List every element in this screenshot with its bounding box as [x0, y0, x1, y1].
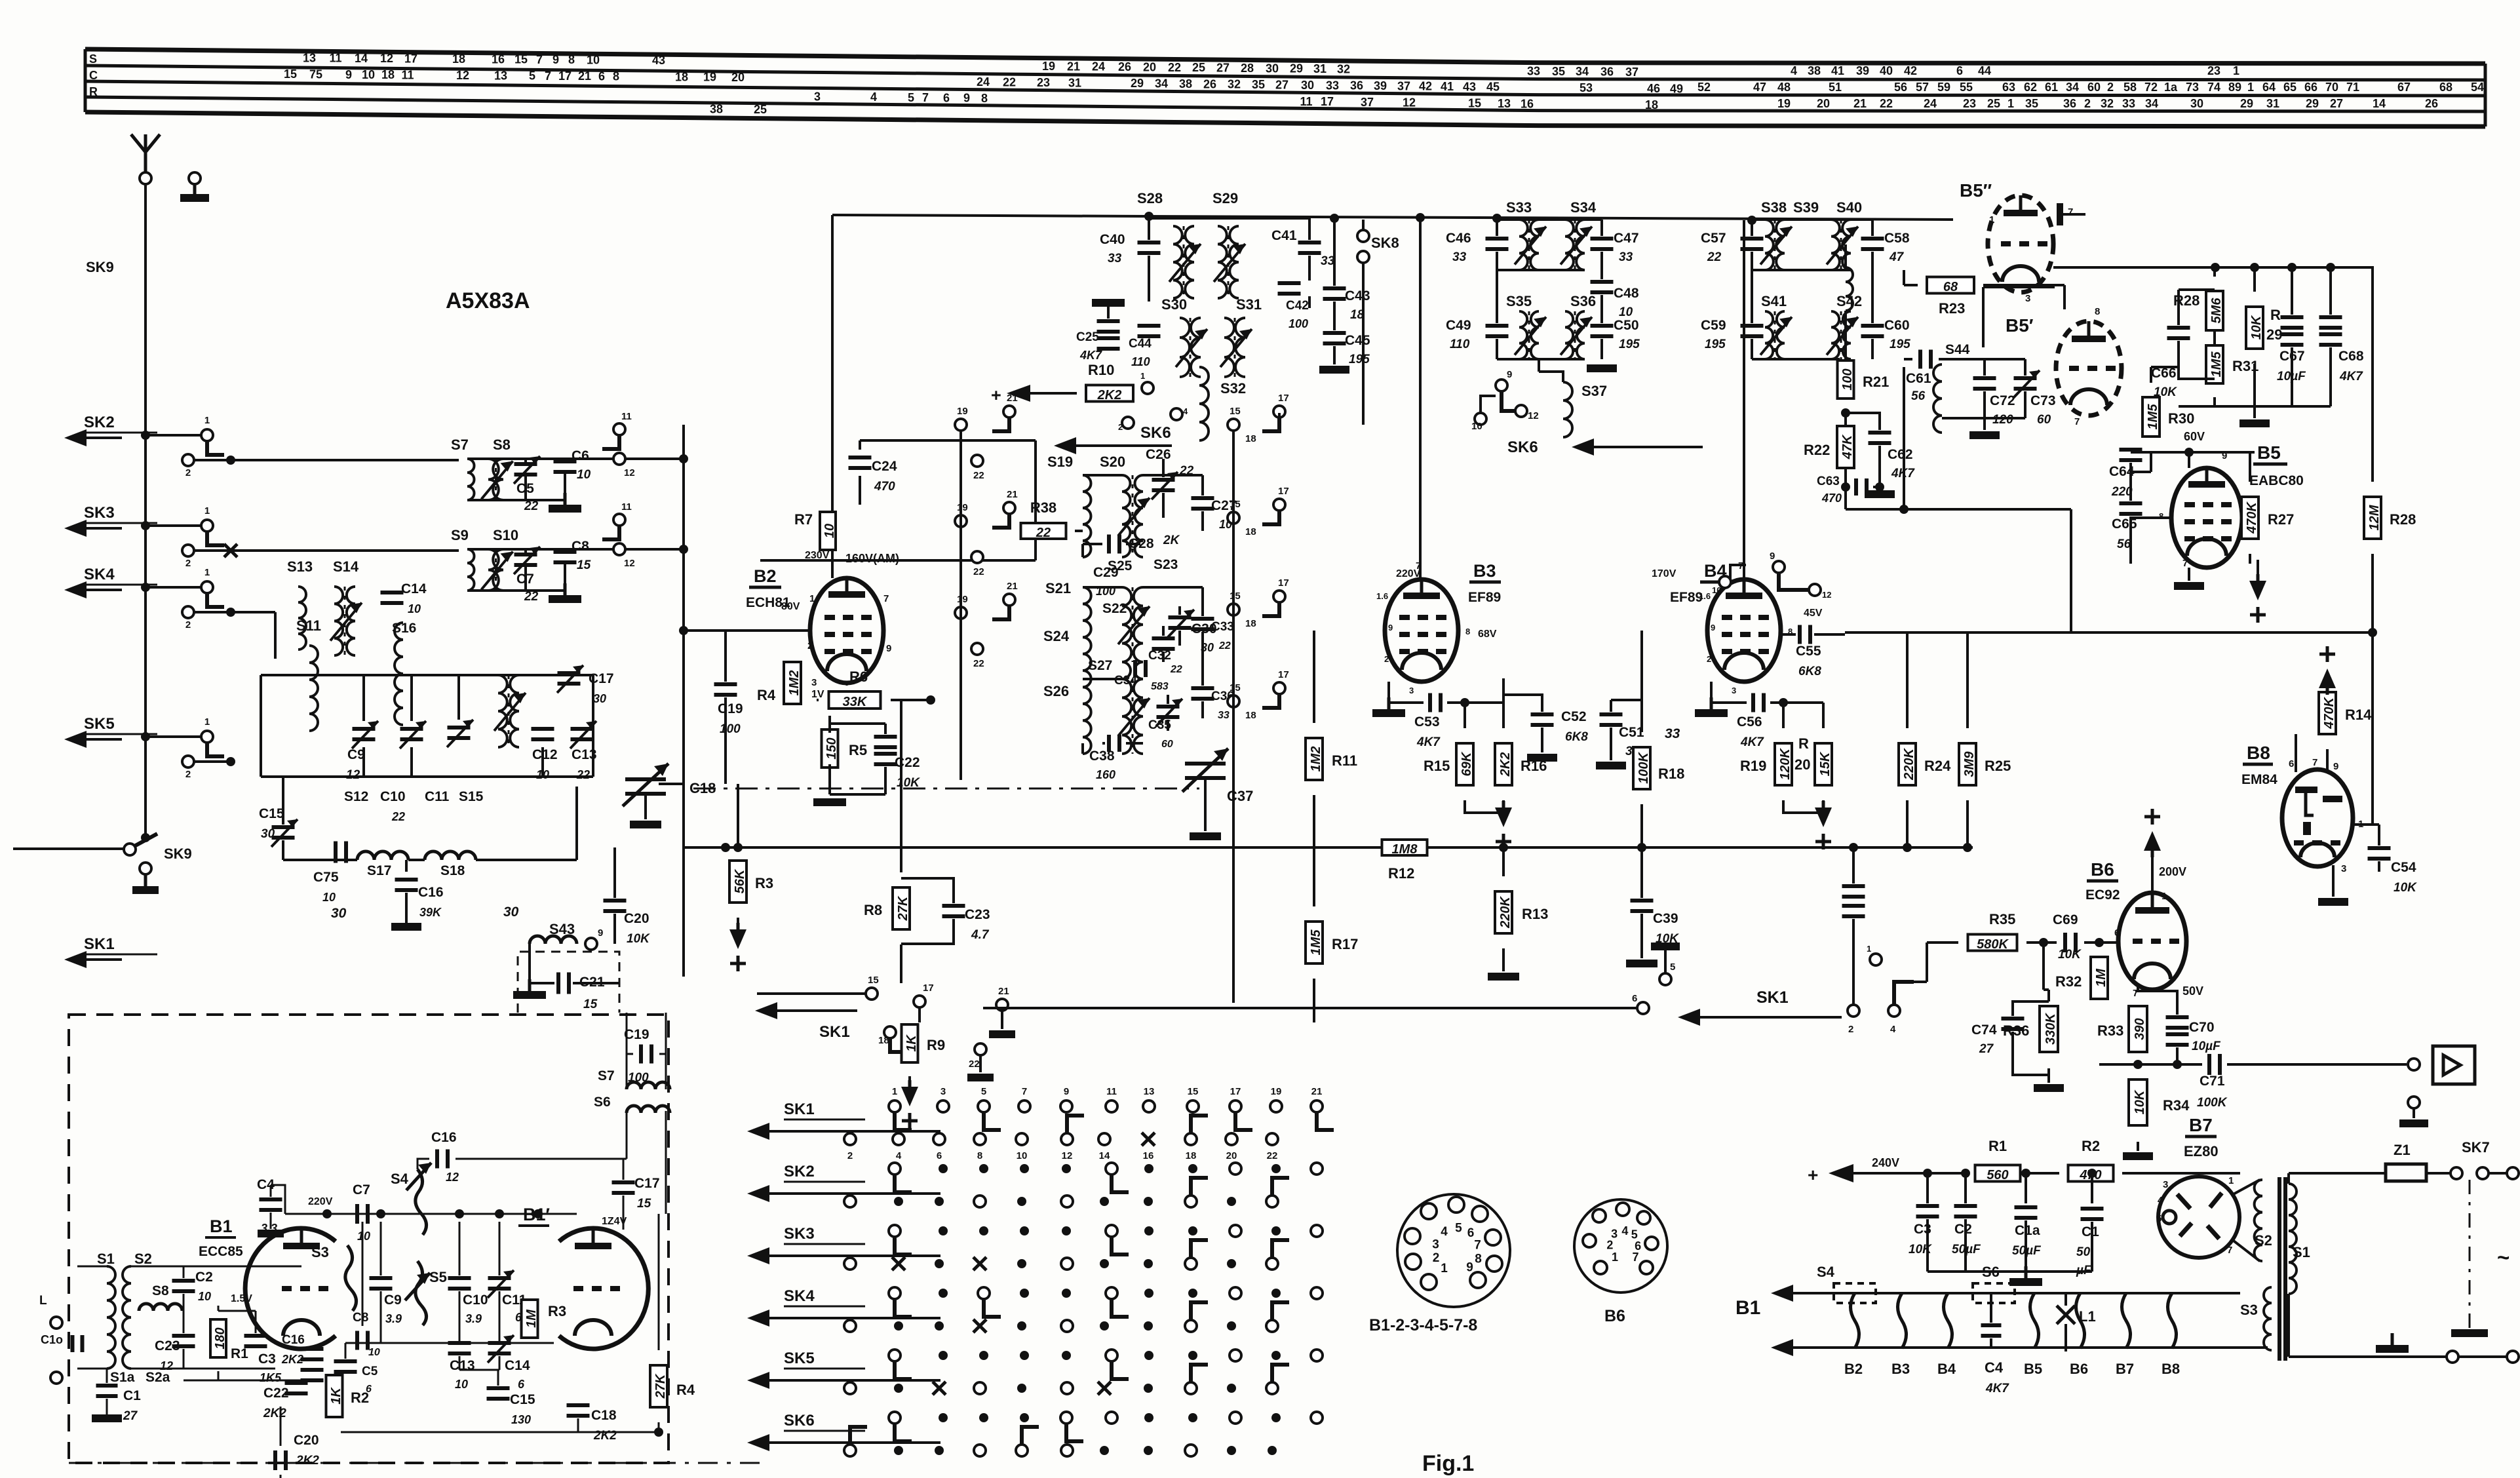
- capacitor C2 50uF: [1954, 1204, 1977, 1208]
- svg-text:B3: B3: [1473, 561, 1496, 581]
- svg-text:C15: C15: [510, 1392, 535, 1407]
- svg-text:C69: C69: [2053, 912, 2078, 927]
- svg-text:1: 1: [204, 716, 210, 728]
- svg-text:39: 39: [1856, 64, 1869, 77]
- svg-text:10K: 10K: [627, 932, 650, 946]
- matrix cell row5 col4: [1020, 1351, 1029, 1360]
- svg-text:7: 7: [1633, 1251, 1639, 1264]
- svg-text:4K7: 4K7: [1740, 735, 1764, 749]
- svg-text:9: 9: [598, 927, 603, 939]
- svg-text:C55: C55: [1796, 644, 1821, 659]
- svg-text:C45: C45: [1345, 333, 1370, 348]
- terminal 15 17 contacts: [866, 988, 878, 1000]
- svg-text:4: 4: [1890, 1024, 1896, 1035]
- svg-text:60: 60: [2037, 413, 2051, 427]
- lamp L1: [2057, 1306, 2075, 1324]
- svg-text:10: 10: [322, 891, 336, 904]
- antenna terminal: [140, 172, 151, 184]
- svg-text:R1: R1: [1988, 1138, 2007, 1154]
- svg-text:SK7: SK7: [2462, 1139, 2490, 1156]
- matrix cell row5 col8: [1188, 1351, 1197, 1360]
- svg-text:18: 18: [452, 52, 465, 66]
- matrix cell row3 col8: [1188, 1226, 1197, 1235]
- svg-text:22: 22: [1170, 664, 1182, 675]
- capacitor C62 4K7: [1869, 431, 1891, 435]
- svg-text:15: 15: [1230, 682, 1241, 693]
- svg-text:470: 470: [874, 480, 895, 494]
- svg-text:R38: R38: [1030, 499, 1056, 516]
- svg-text:19: 19: [1042, 60, 1055, 73]
- svg-text:C44: C44: [1129, 337, 1152, 351]
- capacitor C59: [1741, 324, 1764, 328]
- S4 dashed box: [1834, 1283, 1876, 1303]
- svg-text:31: 31: [1313, 62, 1327, 75]
- svg-text:64: 64: [2262, 81, 2276, 94]
- svg-text:S6: S6: [1982, 1264, 2000, 1280]
- svg-text:EZ80: EZ80: [2184, 1143, 2219, 1159]
- svg-text:SK5: SK5: [784, 1350, 815, 1367]
- svg-text:S17: S17: [367, 863, 391, 878]
- svg-text:30: 30: [261, 827, 275, 841]
- ground below R5: [813, 798, 846, 806]
- svg-text:C63: C63: [1817, 475, 1840, 488]
- resistor R31 1M5: [2206, 345, 2223, 383]
- svg-text:10: 10: [1712, 585, 1721, 595]
- svg-text:S39: S39: [1793, 199, 1819, 216]
- svg-text:11: 11: [401, 68, 414, 81]
- svg-text:8: 8: [2095, 306, 2100, 317]
- bus into B6 area: [1852, 847, 1855, 852]
- svg-text:R19: R19: [1740, 758, 1766, 774]
- matrix cell row2 col10: [1271, 1164, 1281, 1173]
- svg-text:35: 35: [2025, 97, 2038, 110]
- matrix cell row6 col7: [1144, 1413, 1153, 1422]
- main top bus: [832, 215, 1953, 220]
- svg-text:12: 12: [624, 558, 635, 569]
- svg-text:7: 7: [2312, 757, 2317, 768]
- svg-text:56: 56: [2117, 537, 2131, 551]
- capacitor C57: [1741, 237, 1764, 241]
- capacitor C1a 50uF: [2015, 1205, 2038, 1209]
- matrix cell row5 col9: [1230, 1350, 1241, 1361]
- matrix cell row3 col6: [1106, 1225, 1117, 1237]
- matrix cell row2 col2: [939, 1164, 948, 1173]
- plus arrow below R9: [908, 1080, 912, 1097]
- svg-text:2: 2: [1118, 422, 1123, 432]
- capacitor C25 4K7: [1097, 319, 1120, 323]
- capacitor C12: [532, 727, 554, 731]
- svg-text:4K7: 4K7: [1416, 735, 1441, 749]
- svg-text:22: 22: [1036, 526, 1051, 540]
- capacitor C8: [554, 550, 577, 554]
- svg-text:C15: C15: [259, 806, 284, 821]
- svg-text:18: 18: [878, 1035, 889, 1046]
- svg-text:2K: 2K: [1163, 534, 1180, 547]
- svg-text:17: 17: [1278, 486, 1289, 497]
- svg-text:C20: C20: [624, 911, 649, 926]
- terminals near S32: [1142, 382, 1153, 394]
- svg-text:1: 1: [892, 1086, 897, 1097]
- svg-text:24: 24: [977, 75, 990, 88]
- svg-text:9: 9: [963, 92, 970, 105]
- terminal 11 contact above: [613, 423, 625, 435]
- svg-text:S15: S15: [459, 789, 484, 804]
- svg-text:9: 9: [552, 53, 559, 66]
- wire audio out: [2099, 1063, 2202, 1066]
- matrix cell row4 col10: [1271, 1289, 1281, 1298]
- matrix cell row6 col11: [1311, 1412, 1323, 1424]
- svg-text:C6: C6: [572, 448, 589, 463]
- capacitor C66 10K: [2167, 326, 2190, 330]
- svg-text:57: 57: [1916, 81, 1929, 94]
- svg-text:11: 11: [621, 411, 632, 422]
- svg-text:7: 7: [1474, 1239, 1481, 1253]
- resistor R1 560: [1975, 1165, 2021, 1182]
- svg-text:EF89: EF89: [1670, 590, 1703, 605]
- svg-text:18: 18: [675, 70, 688, 83]
- resistor R1fm 180: [210, 1319, 226, 1357]
- svg-text:5M6: 5M6: [2209, 298, 2224, 324]
- svg-text:32: 32: [1337, 62, 1350, 75]
- capacitor C10fm: [448, 1276, 471, 1280]
- resistor R32 1M: [2091, 957, 2108, 999]
- svg-text:S35: S35: [1506, 293, 1532, 309]
- svg-text:R35: R35: [1989, 911, 2015, 927]
- trimmer C11fm: [488, 1276, 511, 1280]
- svg-text:C22: C22: [263, 1386, 289, 1401]
- ground: [564, 583, 567, 595]
- matrix cell row2 col9: [1230, 1163, 1241, 1175]
- svg-text:29: 29: [1131, 77, 1144, 90]
- svg-text:S21: S21: [1045, 580, 1071, 596]
- capacitor C3fm: [244, 1334, 267, 1338]
- svg-text:160V(AM): 160V(AM): [845, 552, 899, 565]
- svg-text:C24: C24: [872, 459, 897, 474]
- svg-text:S29: S29: [1212, 190, 1238, 206]
- svg-text:S37: S37: [1581, 383, 1607, 399]
- svg-text:20: 20: [1143, 60, 1156, 73]
- svg-text:58: 58: [2123, 81, 2137, 94]
- svg-text:S40: S40: [1836, 199, 1862, 216]
- svg-text:580K: 580K: [1977, 937, 2009, 952]
- svg-text:10: 10: [368, 1347, 380, 1358]
- svg-text:C19: C19: [624, 1027, 649, 1042]
- svg-text:C34: C34: [1114, 674, 1137, 688]
- input terminal left: [50, 1317, 62, 1329]
- svg-text:S19: S19: [1047, 454, 1073, 470]
- svg-text:33: 33: [1452, 250, 1467, 264]
- svg-text:12: 12: [1822, 590, 1831, 600]
- wire SK6 bus: [760, 559, 1036, 562]
- svg-text:15K: 15K: [1818, 751, 1832, 776]
- svg-text:4K7: 4K7: [2339, 370, 2363, 383]
- svg-text:C13: C13: [450, 1358, 475, 1373]
- svg-text:C14: C14: [505, 1358, 530, 1373]
- svg-text:33: 33: [1218, 710, 1230, 721]
- resistor R38 22: [1021, 523, 1066, 539]
- svg-text:C52: C52: [1561, 709, 1587, 724]
- svg-text:19: 19: [957, 502, 968, 513]
- wires of IF can: [467, 457, 613, 460]
- svg-text:60: 60: [1161, 739, 1173, 750]
- capacitor C45 195: [1323, 331, 1346, 335]
- svg-text:C3: C3: [258, 1352, 276, 1367]
- svg-text:S36: S36: [1570, 293, 1596, 309]
- vertical feed B3: [1419, 220, 1422, 578]
- capacitor C71 100K: [2207, 1054, 2211, 1075]
- svg-text:5: 5: [529, 69, 535, 83]
- matrix cell row5 col5: [1062, 1351, 1071, 1360]
- svg-text:C40: C40: [1100, 232, 1125, 247]
- svg-text:51: 51: [1829, 81, 1842, 94]
- svg-text:61: 61: [2045, 81, 2058, 94]
- svg-text:21: 21: [578, 69, 591, 83]
- svg-text:6: 6: [518, 1378, 525, 1391]
- matrix cell row2 col11: [1311, 1163, 1323, 1175]
- SK6 arrow mid: [1072, 444, 1172, 447]
- svg-text:30: 30: [503, 904, 519, 920]
- svg-text:8: 8: [1475, 1252, 1482, 1266]
- capacitor C16fm: [301, 1347, 324, 1351]
- resistor R4fm 27K: [650, 1365, 667, 1407]
- resistor R15 69K: [1456, 743, 1473, 785]
- SK1 arrow near B2: [773, 1009, 857, 1012]
- resistor R25 3M9: [1959, 743, 1976, 785]
- switch SK9: [13, 847, 125, 850]
- capacitor C67 10uF: [2281, 315, 2304, 319]
- wires S28 S29 block: [1148, 216, 1150, 240]
- svg-text:33: 33: [1665, 726, 1680, 741]
- svg-text:B1: B1: [210, 1216, 233, 1236]
- big trimmer: [448, 726, 471, 729]
- svg-text:2: 2: [185, 619, 191, 631]
- wires of IF can: [467, 548, 613, 551]
- svg-text:7: 7: [883, 593, 889, 604]
- svg-text:3: 3: [2341, 863, 2346, 874]
- svg-text:R13: R13: [1522, 906, 1548, 922]
- svg-text:17: 17: [1278, 577, 1289, 589]
- svg-text:11: 11: [1300, 95, 1312, 108]
- svg-text:18: 18: [1245, 526, 1256, 537]
- svg-text:S1a: S1a: [110, 1370, 135, 1385]
- svg-text:110: 110: [1131, 355, 1150, 368]
- svg-text:8: 8: [568, 53, 575, 66]
- heater top bus: [1848, 1292, 2240, 1294]
- svg-text:52: 52: [1697, 81, 1711, 94]
- svg-text:19: 19: [1271, 1086, 1282, 1097]
- svg-text:19: 19: [1777, 97, 1791, 110]
- matrix cell row2 col5: [1062, 1164, 1071, 1173]
- svg-text:5: 5: [2156, 1213, 2161, 1224]
- capacitor C75: [334, 842, 338, 863]
- svg-text:EF89: EF89: [1468, 590, 1501, 605]
- svg-text:41: 41: [1831, 64, 1844, 77]
- svg-text:C2: C2: [1954, 1222, 1972, 1237]
- svg-text:2K2: 2K2: [263, 1407, 286, 1420]
- svg-text:2: 2: [1384, 654, 1389, 664]
- fuse Z1: [2386, 1164, 2426, 1181]
- svg-text:7: 7: [545, 69, 551, 83]
- svg-text:32: 32: [1228, 78, 1241, 91]
- matrix cell row4 col7: [1144, 1289, 1153, 1298]
- capacitor C64 220: [2120, 448, 2142, 452]
- svg-text:B4: B4: [1937, 1361, 1956, 1377]
- table top strip borders: [85, 49, 2485, 64]
- wire SK4 row into coil cluster: [231, 611, 275, 613]
- terminal 21 22 near C39: [996, 999, 1008, 1011]
- resistor R5 150: [822, 729, 838, 768]
- svg-text:35: 35: [1252, 78, 1265, 91]
- svg-text:+: +: [1808, 1165, 1818, 1185]
- svg-text:C2: C2: [195, 1270, 213, 1285]
- svg-text:15: 15: [1230, 591, 1241, 602]
- capacitor C20fm: [273, 1450, 277, 1470]
- svg-text:14: 14: [355, 52, 368, 65]
- svg-text:41: 41: [1441, 80, 1454, 93]
- svg-text:50: 50: [2076, 1245, 2091, 1259]
- resistor R6 33K: [829, 691, 881, 709]
- svg-text:4.7: 4.7: [971, 928, 990, 942]
- svg-text:C23: C23: [155, 1338, 180, 1353]
- wire SK2 row to S7: [231, 459, 459, 461]
- svg-text:S7: S7: [598, 1068, 615, 1083]
- svg-text:9: 9: [1466, 1260, 1473, 1274]
- matrix cell row3 col4: [1020, 1226, 1029, 1235]
- resistor R3fm 1M: [522, 1300, 538, 1338]
- plus arrow above R14: [2326, 678, 2329, 695]
- svg-text:4: 4: [1441, 1225, 1448, 1239]
- IF block wires: [1497, 218, 1602, 221]
- svg-text:25: 25: [1987, 97, 2000, 110]
- wires smoothing caps: [1926, 1173, 1929, 1203]
- svg-text:220V: 220V: [308, 1196, 333, 1207]
- svg-text:15: 15: [868, 975, 879, 986]
- svg-text:31: 31: [2266, 97, 2279, 110]
- svg-text:15: 15: [1230, 406, 1241, 417]
- svg-text:26: 26: [1118, 60, 1131, 73]
- svg-text:29: 29: [1290, 62, 1303, 75]
- svg-text:45: 45: [1486, 81, 1500, 94]
- svg-text:C47: C47: [1614, 231, 1639, 246]
- svg-text:9: 9: [1711, 623, 1715, 632]
- plus arrow below R16: [1465, 800, 1503, 813]
- svg-text:R3: R3: [755, 875, 773, 891]
- svg-text:2: 2: [1707, 654, 1711, 664]
- svg-text:16: 16: [1521, 97, 1534, 110]
- matrix cell row6 col10: [1271, 1413, 1281, 1422]
- cluster bottom wires: [282, 777, 284, 825]
- svg-text:28: 28: [1241, 62, 1254, 75]
- svg-text:80V: 80V: [781, 601, 800, 612]
- switch contact pair SK5: [141, 732, 150, 741]
- resistor R18 100K: [1633, 747, 1650, 789]
- capacitor C32: [1152, 636, 1175, 640]
- svg-text:26: 26: [1203, 77, 1216, 90]
- svg-text:27: 27: [1216, 62, 1230, 75]
- resistor R23 68: [1927, 277, 1974, 294]
- svg-text:1M8: 1M8: [1392, 842, 1418, 857]
- svg-text:5: 5: [981, 1086, 986, 1097]
- switch contact pair SK3: [141, 521, 150, 530]
- svg-text:B3: B3: [1891, 1361, 1910, 1377]
- svg-text:2K2: 2K2: [281, 1353, 303, 1366]
- capacitor C19fm: [626, 1013, 628, 1054]
- svg-text:1K5: 1K5: [260, 1371, 282, 1384]
- svg-text:195: 195: [1619, 338, 1640, 351]
- ground below B5: [2188, 568, 2190, 581]
- svg-text:R17: R17: [1332, 936, 1358, 952]
- wire 45V bus: [1845, 631, 2376, 634]
- svg-text:72: 72: [2144, 81, 2158, 94]
- svg-text:S10: S10: [493, 527, 518, 543]
- capacitor C40 33: [1138, 241, 1161, 244]
- svg-text:10K: 10K: [2133, 1089, 2147, 1114]
- capacitor C3 10K: [1916, 1204, 1939, 1208]
- svg-text:70: 70: [2325, 81, 2338, 94]
- svg-text:C1a: C1a: [2015, 1223, 2040, 1238]
- svg-text:15: 15: [284, 68, 297, 81]
- svg-text:2: 2: [2107, 81, 2114, 94]
- svg-text:1.6: 1.6: [1376, 591, 1388, 601]
- left switch contact column: [955, 419, 967, 431]
- svg-text:120K: 120K: [1778, 748, 1793, 780]
- svg-text:7: 7: [922, 91, 929, 104]
- svg-text:10: 10: [577, 468, 591, 482]
- matrix cell row6 col8: [1188, 1413, 1197, 1422]
- svg-text:12M: 12M: [2367, 504, 2382, 530]
- svg-text:3.9: 3.9: [465, 1312, 482, 1325]
- svg-text:C42: C42: [1286, 299, 1309, 313]
- switch contact pair SK2: [141, 431, 150, 440]
- capacitor C13fm: [448, 1341, 471, 1345]
- capacitor C74 27: [2002, 1017, 2025, 1021]
- svg-text:10K: 10K: [2394, 881, 2417, 895]
- svg-text:47K: 47K: [1840, 434, 1855, 459]
- svg-text:1.6: 1.6: [1699, 591, 1711, 601]
- matrix cell row6 col3: [979, 1413, 988, 1422]
- wires around R6: [846, 683, 848, 686]
- svg-text:22: 22: [1707, 250, 1722, 264]
- svg-text:3: 3: [2025, 293, 2030, 304]
- svg-text:22: 22: [1218, 640, 1231, 651]
- matrix cell row3 col5: [1062, 1226, 1071, 1235]
- terminal 6 wire: [1637, 1002, 1649, 1014]
- svg-text:56K: 56K: [733, 868, 747, 893]
- svg-text:220K: 220K: [1498, 896, 1513, 929]
- svg-text:3: 3: [1432, 1238, 1439, 1252]
- svg-text:S23: S23: [1153, 557, 1178, 572]
- svg-text:B7: B7: [2189, 1115, 2213, 1135]
- svg-text:29: 29: [2240, 97, 2253, 110]
- tuning gang dash-dot line: [693, 788, 1199, 790]
- svg-text:15: 15: [583, 998, 598, 1011]
- capacitor C20 10K: [604, 899, 627, 903]
- svg-text:17: 17: [404, 52, 417, 65]
- svg-text:27: 27: [1275, 78, 1289, 91]
- svg-text:S7: S7: [451, 437, 469, 453]
- heater loops B2..B8: [1851, 1293, 1859, 1348]
- svg-text:S25: S25: [1108, 558, 1133, 574]
- svg-text:30: 30: [331, 906, 347, 921]
- svg-text:C33: C33: [1211, 620, 1234, 634]
- svg-text:22: 22: [1003, 75, 1016, 88]
- svg-text:1M: 1M: [524, 1309, 539, 1328]
- capacitor C60: [1861, 324, 1884, 328]
- svg-text:R: R: [2270, 307, 2281, 323]
- svg-text:36: 36: [2063, 97, 2076, 110]
- svg-text:10: 10: [198, 1290, 211, 1303]
- switch contacts near R35: [1848, 1005, 1859, 1017]
